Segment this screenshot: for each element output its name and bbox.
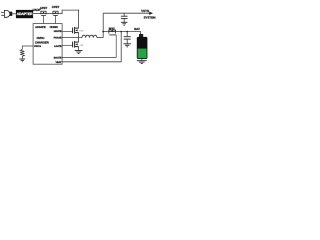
svg-text:ADAPTER: ADAPTER bbox=[17, 12, 33, 16]
inductor L1 bbox=[82, 35, 97, 37]
svg-text:CHARGER: CHARGER bbox=[35, 41, 50, 45]
transistor AFET bbox=[40, 6, 48, 24]
resistor RPROG bbox=[20, 49, 24, 58]
battery body bbox=[137, 37, 148, 59]
transistor HSFET bbox=[73, 27, 84, 38]
node junction SYS/BFET bbox=[102, 31, 104, 33]
node junction CBAT bbox=[126, 31, 128, 33]
wire HGATE bbox=[62, 31, 73, 33]
capacitor CSYS bbox=[121, 13, 128, 22]
wire AFET to CFET bbox=[46, 13, 53, 15]
svg-text:BAT: BAT bbox=[134, 27, 140, 31]
svg-text:CHGIN: CHGIN bbox=[50, 26, 58, 29]
svg-text:HGATE: HGATE bbox=[54, 30, 62, 33]
wall plug icon bbox=[1, 10, 10, 17]
svg-text:PROG: PROG bbox=[34, 45, 41, 48]
capacitor CBAT bbox=[124, 32, 131, 44]
battery green level bbox=[138, 49, 147, 59]
svg-text:LGATE: LGATE bbox=[54, 45, 62, 48]
wire adapter to AFET bbox=[33, 13, 41, 15]
svg-text:SYSTEM: SYSTEM bbox=[144, 15, 156, 19]
wire BGATE rail bbox=[62, 57, 116, 59]
transistor CFET bbox=[52, 5, 60, 24]
svg-text:CFET: CFET bbox=[52, 5, 60, 9]
IC U1 NVDC charger bbox=[33, 24, 62, 65]
ground under LSFET bbox=[75, 51, 83, 54]
wire LGATE bbox=[62, 44, 73, 46]
svg-text:AFET: AFET bbox=[40, 6, 48, 10]
svg-text:VBAT: VBAT bbox=[55, 61, 62, 64]
battery nub bbox=[139, 34, 143, 37]
ground under CSYS bbox=[121, 22, 127, 25]
wire CFET to input rail and HS drain bbox=[58, 10, 79, 28]
node junction VBAT sense bbox=[120, 31, 122, 33]
wire inductor to SYS node bbox=[97, 37, 103, 39]
wire LX / SW node bbox=[62, 37, 82, 39]
adapter box bbox=[16, 10, 33, 18]
wire SYS to BFET bbox=[103, 31, 108, 33]
svg-text:BGATE: BGATE bbox=[54, 56, 62, 59]
svg-text:PHASE: PHASE bbox=[54, 37, 62, 40]
ground under CBAT bbox=[124, 44, 131, 47]
node SYS vertical bbox=[102, 13, 104, 37]
plug connector bbox=[10, 12, 13, 16]
arrow to system bbox=[149, 12, 153, 15]
wire plug to adapter bbox=[12, 13, 16, 15]
transistor BFET bbox=[108, 27, 117, 57]
wire VSYS rail bbox=[103, 12, 149, 14]
wire PROG bbox=[22, 46, 33, 49]
svg-text:VSYS: VSYS bbox=[141, 9, 149, 13]
svg-text:NVDC: NVDC bbox=[37, 36, 46, 40]
transistor LSFET bbox=[73, 38, 84, 51]
svg-text:ADGATE: ADGATE bbox=[35, 26, 46, 29]
ground under battery bbox=[141, 59, 143, 60]
wire VBAT rail bbox=[62, 32, 121, 62]
wire BAT node bbox=[116, 32, 141, 35]
ground under RPROG bbox=[20, 59, 26, 62]
